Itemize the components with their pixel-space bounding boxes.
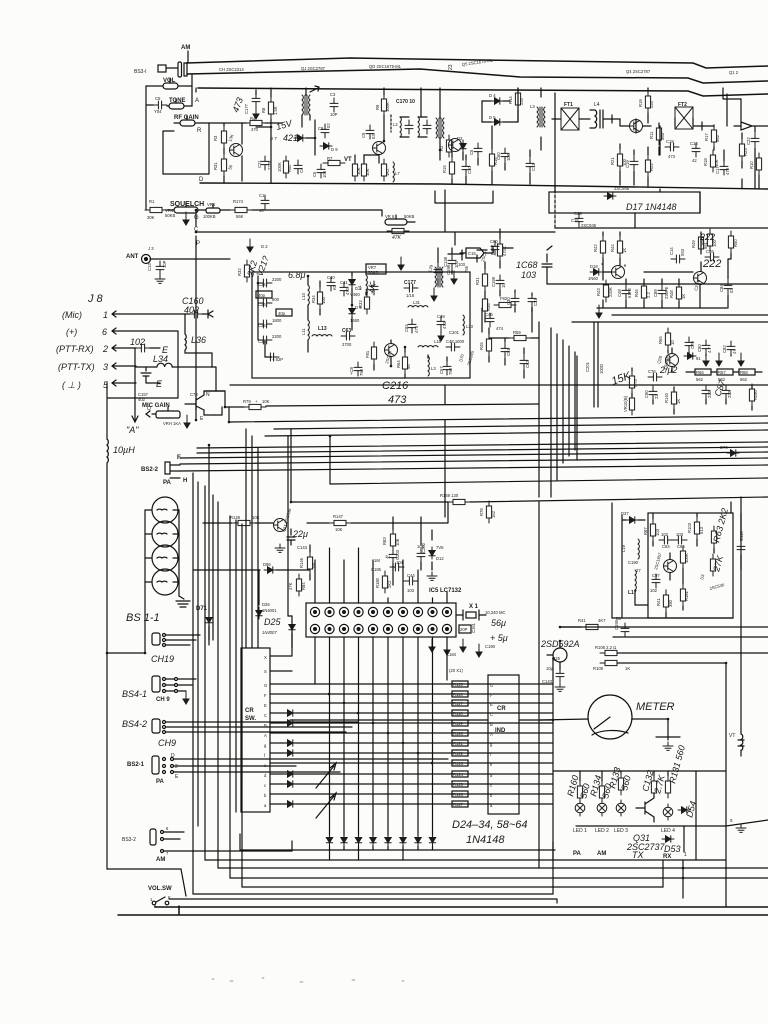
svg-text:L15: L15 (434, 339, 442, 344)
svg-text:C15: C15 (468, 251, 476, 256)
svg-text:C1: C1 (259, 193, 265, 198)
svg-text:D 9: D 9 (331, 147, 338, 152)
svg-text:10K: 10K (335, 527, 343, 532)
svg-text:7V5: 7V5 (436, 545, 444, 550)
svg-text:C62: C62 (525, 360, 530, 368)
capacitor C84b 02 (724, 280, 732, 294)
wire header pins down (315, 637, 447, 836)
block IF box (252, 272, 470, 378)
svg-text:R117: R117 (453, 701, 463, 706)
diode D17 (604, 193, 616, 199)
capacitor C31 (528, 293, 536, 307)
svg-text:E: E (156, 379, 163, 389)
svg-text:2.2: 2.2 (646, 292, 651, 298)
capacitor C41 470 (340, 282, 348, 296)
svg-text:P: P (196, 241, 200, 247)
ground ch9 (183, 691, 189, 704)
svg-text:1K: 1K (676, 399, 681, 404)
svg-text:R116: R116 (453, 692, 463, 697)
connector header box (306, 603, 456, 637)
svg-text:C177: C177 (404, 280, 416, 286)
svg-text:F: F (490, 693, 493, 698)
svg-text:VT: VT (344, 157, 352, 163)
wire top mid links (355, 88, 440, 163)
svg-text:R149 130: R149 130 (440, 493, 459, 498)
resistor R87 103 (650, 519, 655, 541)
capacitor C86b (673, 536, 687, 544)
resistor R109 1K (600, 660, 622, 665)
capacitor C6 103 (317, 164, 325, 178)
wire agc links (462, 250, 532, 322)
svg-text:R23: R23 (743, 148, 748, 156)
svg-text:750: 750 (359, 368, 364, 376)
svg-text:D 7: D 7 (270, 136, 277, 141)
svg-text:J 3: J 3 (148, 246, 154, 251)
svg-text:2200: 2200 (272, 334, 282, 339)
capacitor 40p (256, 291, 272, 298)
svg-text:220K: 220K (608, 287, 613, 297)
wire bus R148 row (203, 522, 232, 524)
svg-text:X 1: X 1 (469, 604, 479, 610)
svg-text:LED 3: LED 3 (614, 828, 628, 834)
svg-text:D25: D25 (264, 617, 282, 627)
svg-text:100D: 100D (599, 364, 604, 374)
svg-text:D76: D76 (720, 445, 728, 450)
block CR IND (488, 675, 519, 814)
wire verticals (193, 436, 288, 826)
svg-text:R109: R109 (593, 666, 604, 671)
svg-text:(PTT-RX): (PTT-RX) (56, 344, 94, 354)
svg-text:BS2-2: BS2-2 (141, 467, 159, 473)
svg-text:1C68: 1C68 (516, 260, 538, 270)
resistor R13 (381, 159, 386, 181)
wire row A (270, 732, 553, 734)
svg-text:CH 9: CH 9 (156, 697, 170, 703)
svg-text:800: 800 (272, 297, 280, 302)
wire bot 850 (240, 834, 555, 850)
svg-text:50KB: 50KB (368, 270, 378, 275)
svg-text:Q1 2: Q1 2 (729, 70, 739, 75)
led LED4 (663, 804, 673, 820)
svg-text:D53: D53 (664, 844, 681, 854)
diode D9b 1460 (349, 305, 355, 317)
ground lamps (176, 596, 190, 607)
svg-text:c: c (264, 783, 266, 788)
resistor R66 (695, 369, 711, 375)
svg-text:R33: R33 (358, 300, 363, 308)
transistor Q6 (449, 139, 462, 152)
svg-text:R119: R119 (453, 721, 463, 726)
svg-text:L3: L3 (530, 104, 535, 109)
svg-text:103: 103 (407, 588, 415, 593)
svg-text:2SC945: 2SC945 (581, 223, 597, 228)
capacitor C203 1u (389, 549, 397, 563)
svg-text:+ 52P: + 52P (272, 357, 283, 362)
svg-text:C143: C143 (297, 545, 308, 550)
resistor R83 10K (390, 529, 395, 551)
svg-text:473: 473 (668, 154, 676, 159)
svg-text:561: 561 (703, 241, 708, 249)
svg-text:223: 223 (707, 390, 712, 398)
svg-text:R50: R50 (733, 239, 738, 247)
svg-text:R181: R181 (684, 590, 689, 601)
svg-text:R49: R49 (691, 240, 696, 248)
svg-text:42: 42 (692, 158, 697, 163)
svg-text:D: D (199, 177, 204, 183)
wire TONE right (191, 86, 193, 106)
svg-text:4.7: 4.7 (707, 347, 712, 353)
svg-text:C30: C30 (506, 297, 511, 305)
diode D2b (460, 140, 466, 152)
wire bot 860 (205, 786, 553, 860)
svg-text:R140: R140 (664, 392, 669, 403)
svg-text:R122: R122 (453, 751, 464, 756)
svg-text:C84: C84 (404, 324, 409, 332)
resistor R146 1M (307, 552, 312, 574)
transformer T3 (435, 267, 443, 287)
svg-text:L34: L34 (153, 354, 168, 364)
capacitor C90 22 (649, 386, 657, 400)
svg-text:C48 1000: C48 1000 (446, 339, 465, 344)
capacitor C82 (727, 341, 735, 355)
svg-text:R17: R17 (704, 133, 709, 141)
transformer T1 (302, 95, 310, 115)
svg-text:AM: AM (156, 857, 165, 863)
lamp 3 (152, 545, 178, 571)
svg-text:C10: C10 (467, 166, 472, 174)
resistor R63 2K2 (711, 526, 716, 548)
svg-text:R78: R78 (479, 508, 484, 516)
diode D9 (320, 143, 332, 149)
svg-text:R3: R3 (213, 135, 218, 141)
svg-text:L1: L1 (357, 285, 362, 290)
svg-text:D 5: D 5 (489, 115, 496, 120)
resistor R133 560 (618, 773, 623, 795)
wire bot 894 (193, 826, 553, 894)
svg-text:TX: TX (632, 850, 644, 860)
svg-text:BS3-2: BS3-2 (122, 837, 136, 843)
svg-text:BS4-2: BS4-2 (122, 719, 147, 729)
diode col 5 (370, 834, 376, 846)
svg-text:756: 756 (464, 265, 469, 273)
svg-text:C138: C138 (443, 256, 448, 267)
svg-text:R125: R125 (453, 782, 464, 787)
wire meter right + ground (632, 719, 668, 740)
svg-text:C21: C21 (257, 160, 262, 168)
capacitor C37 2200 (258, 336, 272, 344)
transistor Q12 (385, 344, 398, 357)
capacitor C87 223 (722, 385, 730, 399)
svg-text:162: 162 (491, 510, 496, 518)
svg-text:1N60: 1N60 (588, 276, 599, 281)
svg-text:R123: R123 (453, 761, 464, 766)
svg-text:PA: PA (156, 779, 165, 785)
svg-text:40: 40 (259, 208, 264, 213)
svg-text:223: 223 (727, 390, 732, 398)
svg-text:10: 10 (670, 340, 675, 345)
wire bottom line 2 (118, 906, 768, 915)
svg-text:C84: C84 (662, 544, 670, 549)
svg-text:C184: C184 (446, 652, 457, 657)
capacitor C62 (520, 355, 528, 369)
resistor R3 13K (221, 126, 226, 148)
svg-text:R106 2.2 Ω: R106 2.2 Ω (595, 645, 616, 650)
transistor Q3 (373, 142, 386, 155)
wire AM stub (187, 51, 189, 62)
capacitor C84 473 (408, 319, 416, 333)
resistor R59 (509, 335, 531, 340)
resistor R23 (739, 139, 744, 161)
svg-text:CR: CR (245, 708, 254, 714)
svg-text:C177: C177 (244, 103, 249, 114)
wire line 322 (572, 321, 768, 323)
resistor R134 560 (599, 781, 604, 803)
capacitor C14 053 (671, 255, 685, 263)
diode col 4 (355, 834, 361, 846)
svg-text:C76: C76 (648, 369, 656, 374)
svg-text:C22: C22 (746, 137, 751, 145)
svg-text:R118: R118 (453, 711, 463, 716)
svg-text:R64: R64 (396, 360, 401, 368)
resistor R46 2.2 (641, 281, 646, 303)
svg-text:02: 02 (326, 123, 331, 128)
wire bot left verts (197, 786, 199, 826)
svg-text:10K: 10K (714, 159, 719, 167)
svg-text:C46: C46 (485, 312, 493, 317)
svg-text:100K: 100K (385, 102, 390, 112)
svg-text:R22: R22 (649, 163, 654, 171)
svg-text:VRH 1KA: VRH 1KA (163, 421, 181, 426)
wire row g + diode (270, 742, 553, 744)
svg-text:47: 47 (732, 349, 737, 354)
svg-text:D24–34, 58~64: D24–34, 58~64 (452, 819, 528, 831)
ground VR7 (398, 257, 404, 270)
wire row f + diode (270, 752, 553, 754)
block noise amp box (549, 192, 700, 213)
svg-text:363: 363 (660, 132, 665, 140)
svg-text:R148: R148 (230, 515, 241, 520)
svg-text:40p: 40p (278, 311, 286, 316)
svg-text:R32: R32 (237, 268, 242, 276)
wire pll links (310, 517, 432, 585)
resistor R34 100 (317, 287, 322, 309)
wire meter row (290, 719, 553, 721)
svg-text:1800: 1800 (272, 318, 282, 323)
svg-text:D96: D96 (263, 562, 271, 567)
resistor R22 (645, 155, 650, 177)
svg-text:61FE: 61FE (627, 288, 632, 298)
svg-text:C13: C13 (147, 263, 152, 271)
resistor R10 (756, 153, 761, 175)
inductor L16 (428, 356, 429, 376)
pin labels CR IND (490, 683, 493, 808)
resistor R182 100K (680, 546, 685, 568)
pin row top (310, 607, 451, 616)
svg-text:50KB: 50KB (404, 214, 414, 219)
capacitor C19 (630, 156, 638, 170)
svg-text:H: H (183, 478, 187, 484)
svg-text:1.5K: 1.5K (273, 106, 278, 115)
resistor R19 220 (645, 91, 650, 113)
svg-text:"A": "A" (126, 425, 139, 435)
wire IF links (308, 272, 447, 378)
svg-text:R127: R127 (453, 802, 464, 807)
resistor R33 1K (364, 292, 369, 314)
svg-text:C31: C31 (533, 298, 538, 306)
svg-text:2: 2 (102, 344, 108, 354)
svg-text:R4L: R4L (287, 164, 292, 172)
resistor R44 1K (617, 236, 622, 258)
svg-text:G: G (264, 683, 267, 688)
svg-text:ANT: ANT (126, 254, 139, 260)
svg-text:A: A (264, 733, 267, 738)
svg-text:S: S (264, 669, 267, 674)
wire af ground row (597, 307, 727, 309)
wire bus R149 row (291, 429, 448, 502)
lamp 4 (152, 569, 178, 595)
wire bot 878 (230, 806, 768, 878)
wire D row (200, 183, 768, 189)
transistor Q31 (636, 793, 654, 822)
resistor R84 47K (296, 574, 301, 596)
svg-text:473: 473 (442, 321, 447, 329)
svg-text:PA: PA (163, 480, 172, 486)
svg-text:L3: L3 (431, 366, 436, 371)
wire row E (270, 702, 553, 704)
svg-text:+C8: +C8 (349, 367, 354, 375)
wire PA H (170, 477, 180, 479)
svg-text:D71: D71 (196, 606, 208, 612)
wire line 228 (555, 227, 768, 229)
transistor Q D96 row (193, 569, 260, 571)
svg-text:102: 102 (650, 588, 658, 593)
wire row C + diode (270, 712, 553, 714)
wire C row (196, 231, 555, 233)
svg-text:D18: D18 (590, 264, 598, 269)
svg-text:22: 22 (654, 394, 659, 399)
inductor L17 (635, 570, 636, 590)
svg-text:2276: 2276 (267, 160, 272, 170)
svg-text:C18: C18 (666, 139, 674, 144)
diode col 3 (341, 834, 347, 846)
capacitor C9 03 (366, 125, 374, 139)
capacitor C138 103 (448, 255, 456, 269)
svg-text:C36: C36 (258, 302, 266, 307)
capacitor C80 (702, 340, 710, 354)
resistor R140 (671, 387, 676, 409)
wire line 663 (617, 663, 726, 771)
pot VR10 (629, 393, 634, 415)
svg-text:50KB: 50KB (165, 213, 175, 218)
ground S (736, 824, 746, 832)
resistor R160 560 (577, 781, 582, 803)
pin labels CR SW (264, 655, 267, 808)
svg-text:L13: L13 (318, 326, 327, 332)
svg-text:20P: 20P (460, 627, 468, 632)
svg-text:R42: R42 (593, 244, 598, 252)
svg-text:D: D (171, 753, 175, 759)
svg-text:R87: R87 (643, 527, 648, 535)
svg-text:C151: C151 (471, 622, 476, 633)
svg-text:c: c (490, 783, 492, 788)
diode D4 (491, 98, 503, 104)
lamp 2 (152, 521, 178, 547)
wire mic-out row R79 (204, 391, 225, 415)
svg-text:1K: 1K (681, 294, 686, 299)
diode col 8 (415, 834, 421, 846)
inductor L10 (308, 285, 309, 305)
svg-text:D26: D26 (262, 602, 270, 607)
wire top row fills (452, 88, 530, 184)
wire led common (576, 820, 768, 826)
svg-text:R8: R8 (261, 107, 266, 113)
svg-text:F: F (264, 693, 267, 698)
wire fills agc2 (489, 328, 539, 378)
wire bus B6 (330, 436, 768, 484)
wire bus B3 (F) (180, 452, 768, 458)
zener D12 7V5 (429, 547, 435, 559)
svg-text:B: B (264, 723, 267, 728)
svg-text:BS 1-1: BS 1-1 (126, 612, 160, 624)
svg-text:R174: R174 (233, 199, 244, 204)
wire bus A3 (196, 247, 768, 429)
svg-text:1K2: 1K2 (385, 168, 390, 176)
diode D5 (491, 119, 503, 125)
wire TX block links (612, 503, 741, 618)
svg-text:102: 102 (661, 532, 669, 537)
svg-text:LED 4: LED 4 (661, 828, 675, 834)
svg-text:562: 562 (696, 377, 704, 382)
svg-text:C201: C201 (449, 330, 460, 335)
svg-text:D12: D12 (436, 556, 444, 561)
svg-text:10K: 10K (262, 399, 270, 404)
svg-text:C44: C44 (407, 573, 415, 578)
svg-text:C: C (264, 713, 267, 718)
wire bus A4 (265, 430, 768, 436)
svg-text:R59: R59 (513, 330, 521, 335)
svg-text:L33: L33 (466, 324, 474, 329)
svg-text:91: 91 (696, 356, 701, 361)
wire lamp rails (145, 510, 179, 653)
svg-text:750: 750 (448, 367, 453, 375)
capacitor C18 473 (665, 143, 679, 151)
meter M (588, 695, 632, 739)
resistor R65 (665, 328, 670, 350)
wire line 385 (230, 384, 768, 386)
resistor R132 2.7K (651, 776, 656, 798)
svg-text:R11: R11 (649, 131, 654, 139)
inductor L2 dashed (390, 115, 392, 132)
wire vert x445 (444, 190, 446, 517)
resistor R11 363 (656, 123, 661, 145)
svg-text:QJ 2SC2787: QJ 2SC2787 (301, 66, 326, 71)
capacitor C91 223 (702, 385, 710, 399)
svg-text:C60: C60 (490, 239, 498, 244)
wire volsw out (169, 899, 557, 903)
capacitor C21 2276 (261, 156, 269, 170)
svg-text:470: 470 (251, 127, 259, 132)
svg-text:D 4: D 4 (489, 93, 496, 98)
capacitor C60 (491, 241, 499, 255)
wire R row (195, 122, 282, 124)
svg-text:4K7: 4K7 (598, 618, 606, 623)
svg-text:L4: L4 (594, 102, 600, 108)
resistor R16 (489, 149, 494, 171)
diode col 9 (429, 834, 435, 846)
svg-text:R48: R48 (669, 290, 674, 298)
resistor R31 (221, 154, 226, 176)
block TX driver (648, 513, 733, 618)
